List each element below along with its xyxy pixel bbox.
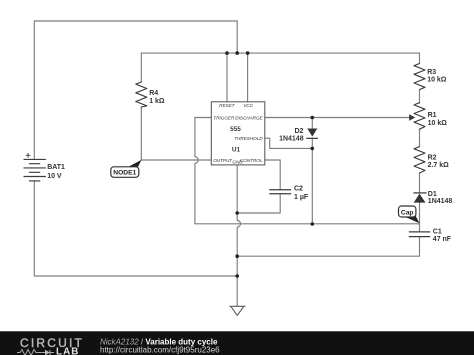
wire control stub: [265, 160, 280, 190]
svg-text:C1: C1: [433, 229, 442, 236]
wire C1 top lead: [419, 224, 421, 232]
label BAT1: [47, 164, 65, 180]
wire discharge to wiper: [265, 117, 410, 119]
wire R3 top lead: [419, 53, 421, 63]
wire R4 top lead: [140, 53, 142, 82]
svg-text:R2: R2: [428, 155, 437, 162]
label C1: [433, 229, 452, 243]
resistor R3: [414, 64, 425, 90]
svg-text:C2: C2: [294, 186, 303, 193]
svg-text:2.7 kΩ: 2.7 kΩ: [428, 162, 450, 169]
svg-text:U1: U1: [232, 147, 241, 154]
node Cap flag: [399, 206, 420, 223]
wire D2 cathode lead: [311, 138, 313, 224]
svg-text:BAT1: BAT1: [47, 164, 65, 171]
label R1: [428, 112, 448, 127]
svg-text:R1: R1: [428, 112, 437, 119]
svg-text:10 kΩ: 10 kΩ: [428, 120, 448, 127]
wire threshold jog: [265, 138, 313, 148]
svg-text:1N4148: 1N4148: [428, 198, 453, 205]
ground: [229, 306, 245, 315]
wire trigger vertical with hop: [195, 118, 198, 224]
battery BAT1: [24, 159, 46, 181]
svg-text:CONTROL: CONTROL: [240, 158, 263, 163]
resistor R4: [136, 82, 147, 107]
svg-text:555: 555: [230, 126, 241, 133]
node dot gnd / C1 return: [235, 254, 239, 258]
label R2: [428, 155, 450, 169]
svg-text:TRIGGER: TRIGGER: [213, 115, 235, 120]
label C2: [294, 186, 309, 202]
label D1: [428, 191, 453, 205]
svg-text:DISCHARGE: DISCHARGE: [235, 115, 263, 120]
wire battery bottom return: [34, 181, 237, 276]
svg-text:R3: R3: [427, 69, 436, 76]
svg-text:Cap: Cap: [401, 209, 414, 216]
svg-text:R4: R4: [149, 90, 158, 97]
wire R2-D1 link: [419, 173, 421, 193]
battery plus sign: [26, 153, 31, 158]
wire vcc rail: [141, 52, 419, 54]
resistor R2: [414, 147, 425, 173]
node dot discharge / D2: [311, 116, 315, 120]
wire trigger-threshold bottom run: [195, 223, 420, 225]
junction dots: [225, 51, 314, 278]
node dot D2 / bottom run: [311, 222, 315, 226]
logo diode: [45, 350, 50, 355]
svg-text:http://circuitlab.com/cfj9t95r: http://circuitlab.com/cfj9t95ru23e6: [100, 346, 220, 355]
node dot gnd / battery return: [235, 274, 239, 278]
wire D2 anode lead: [311, 118, 313, 129]
logo resistor zigzag: [17, 350, 40, 355]
wire R1-R2 link: [419, 129, 421, 146]
potentiometer R1: [414, 103, 425, 130]
diode D2: [306, 129, 318, 139]
svg-text:VCC: VCC: [243, 103, 253, 108]
svg-text:1 µF: 1 µF: [294, 194, 309, 201]
label R4 value: [149, 90, 165, 105]
footer bar: [0, 331, 474, 355]
node dot vcc rail / reset: [225, 51, 229, 55]
node dot vcc rail / supply: [235, 51, 239, 55]
diode D1: [413, 193, 426, 203]
svg-text:10 kΩ: 10 kΩ: [427, 76, 447, 83]
svg-text:1 kΩ: 1 kΩ: [149, 98, 165, 105]
svg-text:47 nF: 47 nF: [433, 236, 452, 243]
svg-text:THRESHOLD: THRESHOLD: [234, 136, 263, 141]
node dot vcc rail / vcc pin: [246, 51, 250, 55]
wire output to node1: [141, 159, 211, 161]
label R3: [427, 69, 447, 83]
wire reset lead: [226, 53, 228, 102]
label D2: [279, 128, 304, 142]
svg-text:GND: GND: [232, 160, 243, 165]
svg-text:1N4148: 1N4148: [279, 135, 304, 142]
capacitor C2: [269, 190, 291, 194]
wire R3-R1 link: [419, 90, 421, 103]
wiper arrow of R1: [409, 114, 415, 120]
svg-text:NODE1: NODE1: [113, 170, 136, 177]
op-amp U1 555 IC body: [211, 102, 264, 165]
wire R4 bottom lead to node1 corner: [140, 107, 142, 160]
svg-text:D1: D1: [428, 191, 437, 198]
wire D1 anode lead: [419, 203, 421, 224]
svg-text:LAB: LAB: [56, 347, 79, 355]
wire trigger stub: [195, 117, 211, 119]
node NODE1 flag: [111, 160, 142, 178]
wire C2 bottom return: [237, 194, 280, 213]
svg-text:10 V: 10 V: [47, 173, 62, 180]
wire gnd vertical with hop: [237, 165, 240, 306]
wire vcc lead: [247, 53, 249, 102]
wire top drop to vcc rail: [236, 21, 238, 53]
wire battery top vertical: [33, 21, 35, 159]
capacitor C1: [409, 232, 430, 237]
svg-text:RESET: RESET: [219, 103, 236, 108]
wire C1 bottom return: [237, 237, 419, 257]
node dot threshold / D2: [311, 147, 315, 151]
svg-text:OUTPUT: OUTPUT: [213, 158, 233, 163]
node dot gnd / C2 return: [235, 211, 239, 215]
svg-text:D2: D2: [294, 128, 303, 135]
wire top rail: [34, 20, 237, 22]
